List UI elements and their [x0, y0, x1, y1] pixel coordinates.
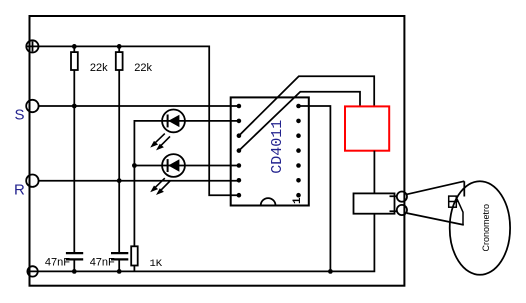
svg-text:CD4011: CD4011 [269, 120, 286, 174]
svg-text:22k: 22k [90, 62, 108, 74]
svg-text:22k: 22k [134, 62, 152, 74]
svg-text:47nF: 47nF [45, 257, 70, 269]
svg-text:Cronometro: Cronometro [481, 204, 491, 252]
svg-text:1K: 1K [150, 258, 163, 270]
svg-text:1: 1 [292, 197, 304, 204]
svg-text:S: S [15, 107, 25, 124]
svg-text:47nF: 47nF [90, 257, 115, 269]
svg-text:R: R [14, 182, 25, 199]
